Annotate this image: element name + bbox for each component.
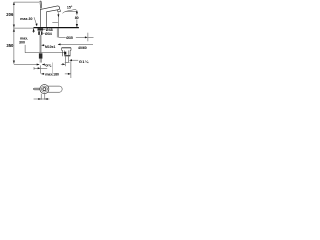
water stream arrow — [57, 13, 59, 27]
svg-text:G⅜: G⅜ — [45, 64, 52, 68]
svg-text:80: 80 — [75, 16, 79, 20]
waste tailpipe — [65, 56, 70, 62]
faucet technical dimension drawing — [0, 0, 100, 100]
hose end nut — [39, 53, 43, 58]
head top — [40, 8, 43, 11]
label M10x1 with arrow to stud — [42, 44, 45, 46]
arrowheads on 206/350 line — [13, 2, 15, 64]
small arrow to tick at 65.4 — [61, 63, 65, 65]
svg-text:max.180: max.180 — [45, 73, 59, 77]
hose centerline extension and arrow — [40, 65, 42, 73]
horizontal dia 35 dimension — [59, 33, 94, 42]
svg-text:206: 206 — [6, 12, 14, 17]
svg-text:G1¼: G1¼ — [79, 59, 89, 64]
rod clamp block — [64, 52, 66, 55]
40-60 dimension line — [58, 43, 93, 45]
top view hole dimension — [34, 94, 50, 100]
spout: top edge, round tip, bottom edge — [44, 6, 60, 12]
pop-up waste body — [62, 48, 71, 56]
label dia 34 — [43, 32, 45, 34]
lever — [39, 1, 42, 9]
label dia 48 — [43, 28, 46, 30]
max300 L-leader to waste line — [25, 45, 64, 53]
dimension 80 vertical — [76, 10, 78, 27]
hose down from shank — [40, 35, 41, 53]
pop-up rod below deck — [57, 28, 58, 37]
dimension line 206/350 vertical — [14, 2, 39, 64]
svg-text:max.30: max.30 — [20, 17, 32, 21]
svg-text:300: 300 — [19, 41, 25, 45]
label G 1 1/4 with leader — [70, 59, 78, 61]
svg-text:Ø34: Ø34 — [45, 32, 52, 36]
svg-text:M10x1: M10x1 — [45, 45, 55, 49]
svg-text:15°: 15° — [67, 6, 73, 10]
deck / counter line — [34, 27, 79, 29]
faucet body side view — [40, 1, 61, 27]
svg-text:40/60: 40/60 — [78, 46, 87, 50]
faint vertical line — [52, 63, 54, 76]
top view: lever arm — [34, 88, 42, 90]
body column — [39, 9, 41, 27]
G 3/8 dimension on hose tip — [37, 64, 40, 66]
max300 top arrow at deck — [33, 28, 35, 33]
small tick on stream — [52, 21, 58, 23]
waste bottom seam — [64, 55, 70, 56]
top view: spout oblong — [46, 86, 62, 92]
aerator nub — [58, 10, 61, 12]
svg-text:350: 350 — [6, 43, 14, 48]
top view: body circles — [40, 85, 49, 94]
svg-text:Ø35: Ø35 — [66, 36, 73, 40]
below-deck mounting block — [38, 28, 44, 35]
